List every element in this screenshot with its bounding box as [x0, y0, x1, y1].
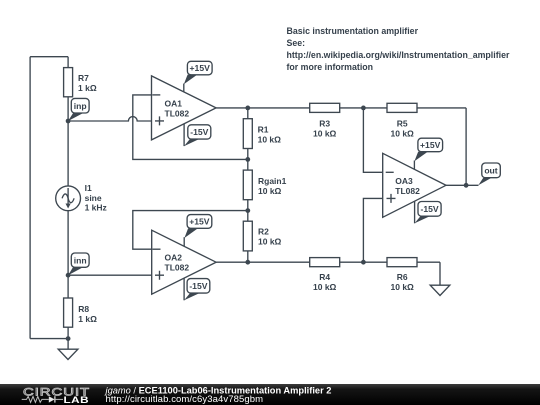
flag -15V OA2: [184, 278, 210, 300]
svg-text:Basic instrumentation amplifie: Basic instrumentation amplifier: [287, 26, 419, 36]
wire OA1 feedback (minus input to R1/Rgain1 node): [133, 95, 248, 159]
node OA3 out dot: [464, 183, 469, 188]
resistor R2: [243, 211, 281, 263]
node R3/R5 dot: [361, 106, 366, 111]
svg-text:-15V: -15V: [190, 127, 208, 137]
svg-text:R1: R1: [258, 124, 269, 134]
svg-text:TL082: TL082: [395, 186, 420, 196]
svg-text:See:: See:: [287, 38, 306, 48]
wire inn to OA2 + input: [68, 274, 152, 276]
svg-text:R8: R8: [78, 304, 89, 314]
wire R5 right down to OA3 output node: [465, 108, 467, 185]
svg-text:R6: R6: [397, 272, 408, 282]
svg-text:+15V: +15V: [190, 63, 211, 73]
source I1: [56, 121, 107, 275]
wire OA2 feedback (minus input to Rgain1/R2 node): [133, 211, 248, 250]
svg-text:sine: sine: [85, 193, 102, 203]
resistor R7: [64, 57, 97, 121]
svg-text:OA2: OA2: [165, 253, 183, 263]
svg-text:I1: I1: [85, 183, 92, 193]
wire R4/R6 node up to OA3 plus input: [363, 198, 382, 262]
node R4/R6 dot: [361, 260, 366, 265]
svg-text:OA1: OA1: [165, 99, 183, 109]
svg-text:OA3: OA3: [395, 176, 413, 186]
svg-text:R3: R3: [319, 119, 330, 129]
svg-text:http://en.wikipedia.org/wiki/I: http://en.wikipedia.org/wiki/Instrumenta…: [287, 50, 510, 60]
svg-text:10 kΩ: 10 kΩ: [391, 129, 415, 139]
svg-text:1 kΩ: 1 kΩ: [78, 314, 97, 324]
footer text: [104, 385, 332, 405]
resistor R1: [243, 108, 281, 159]
node inn junction dot: [66, 273, 71, 278]
node R1/Rgain1 dot: [245, 157, 250, 162]
svg-text:10 kΩ: 10 kΩ: [258, 186, 282, 196]
svg-text:inp: inp: [74, 101, 87, 111]
svg-text:out: out: [484, 166, 497, 176]
svg-text:10 kΩ: 10 kΩ: [258, 134, 282, 144]
resistor R5: [363, 103, 466, 138]
node R8 bottom junction dot: [66, 336, 71, 341]
svg-text:1 kHz: 1 kHz: [85, 203, 107, 213]
svg-text:R5: R5: [397, 119, 408, 129]
svg-text:R7: R7: [78, 73, 89, 83]
svg-text:LAB: LAB: [64, 396, 90, 405]
svg-text:R4: R4: [319, 272, 330, 282]
svg-text:10 kΩ: 10 kΩ: [313, 282, 337, 292]
svg-text:-15V: -15V: [189, 281, 207, 291]
svg-text:Rgain1: Rgain1: [258, 176, 287, 186]
resistor R3: [310, 103, 364, 138]
svg-text:10 kΩ: 10 kΩ: [258, 236, 282, 246]
wire outer left loop: [30, 57, 68, 339]
svg-text:-15V: -15V: [421, 204, 439, 214]
note annotation text: [287, 26, 510, 72]
resistor R6: [363, 258, 440, 292]
resistor R4: [310, 258, 364, 292]
node OA1 out / R1 top dot: [245, 106, 250, 111]
op-amp OA2: [152, 230, 216, 294]
flag +15V OA3: [414, 138, 442, 169]
wire OA1 output row: [216, 107, 310, 109]
ground right: [430, 262, 450, 295]
footer bar: [0, 384, 540, 405]
resistor R8: [64, 275, 98, 338]
flag -15V OA1: [184, 124, 211, 146]
wire R3/R5 node down to OA3 minus input: [363, 108, 382, 172]
svg-text:http://circuitlab.com/c6y3a4v7: http://circuitlab.com/c6y3a4v785gbm: [106, 394, 264, 405]
op-amp OA3: [383, 153, 446, 217]
ground left: [58, 339, 78, 360]
flag +15V OA1: [184, 61, 212, 92]
wire inp to OA1 + input with hop: [68, 117, 151, 121]
svg-text:1 kΩ: 1 kΩ: [78, 83, 97, 93]
svg-text:TL082: TL082: [165, 109, 190, 119]
wire OA2 output row: [216, 261, 310, 263]
flag out: [478, 163, 500, 185]
flag inp: [68, 98, 89, 121]
svg-text:+15V: +15V: [189, 217, 210, 227]
svg-text:10 kΩ: 10 kΩ: [313, 129, 337, 139]
resistor Rgain1: [243, 159, 286, 210]
flag +15V OA2: [184, 215, 212, 247]
svg-text:+15V: +15V: [420, 140, 441, 150]
svg-text:inn: inn: [74, 255, 87, 265]
svg-text:TL082: TL082: [165, 263, 190, 273]
flag inn: [68, 253, 89, 275]
flag -15V OA3: [415, 202, 442, 224]
node inp junction dot: [66, 119, 71, 124]
svg-text:R2: R2: [258, 227, 269, 237]
svg-text:for more information: for more information: [287, 62, 374, 72]
wire OA3 output: [446, 184, 479, 186]
node Rgain1/R2 dot: [245, 208, 250, 213]
node R2 bottom / OA2 out dot: [245, 260, 250, 265]
footer logo CIRCUIT LAB: [22, 386, 90, 405]
op-amp OA1: [152, 76, 217, 140]
svg-text:10 kΩ: 10 kΩ: [391, 282, 415, 292]
